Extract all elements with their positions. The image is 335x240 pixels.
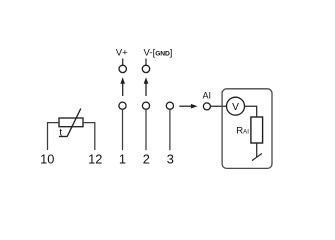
stub above V- terminal — [145, 59, 147, 66]
svg-text:V-[GND]: V-[GND] — [144, 46, 173, 58]
svg-text:RAI: RAI — [236, 126, 249, 137]
V- terminal circle — [142, 65, 149, 72]
thermistor RTD body — [59, 118, 83, 127]
svg-text:AI: AI — [203, 91, 212, 101]
chassis ground slash — [252, 154, 262, 161]
wire AI to voltmeter — [210, 105, 226, 107]
terminal 1 circle — [119, 102, 126, 109]
wire pin12 — [83, 123, 95, 150]
wire terminal 2 — [145, 109, 147, 150]
thermistor diagonal stroke — [67, 109, 81, 137]
svg-text:1: 1 — [119, 152, 126, 167]
terminal 2 circle — [142, 102, 149, 109]
wire voltmeter to resistor — [245, 106, 257, 117]
wire terminal 3 — [169, 109, 171, 150]
arrow up column 2 — [144, 77, 149, 96]
terminal 3 circle — [166, 102, 173, 109]
voltmeter U1 — [227, 97, 245, 115]
svg-text:12: 12 — [88, 151, 102, 166]
arrow terminal3 to AI — [179, 104, 197, 109]
resistor RAI — [251, 117, 263, 143]
svg-text:V: V — [232, 102, 239, 113]
wire pin10 — [48, 123, 60, 150]
svg-text:10: 10 — [40, 151, 54, 166]
V+ terminal circle — [119, 65, 126, 72]
stub above V+ terminal — [122, 59, 124, 66]
svg-text:2: 2 — [143, 152, 150, 167]
svg-text:t: t — [59, 128, 62, 139]
wire resistor to chassis — [256, 143, 258, 157]
wire terminal 1 — [122, 109, 124, 150]
analog input module box — [222, 89, 272, 169]
svg-text:3: 3 — [167, 152, 174, 167]
node AI circle — [203, 103, 210, 110]
svg-text:V+: V+ — [116, 47, 128, 58]
thermistor foot line — [59, 136, 68, 138]
arrow up column 1 — [120, 77, 125, 96]
